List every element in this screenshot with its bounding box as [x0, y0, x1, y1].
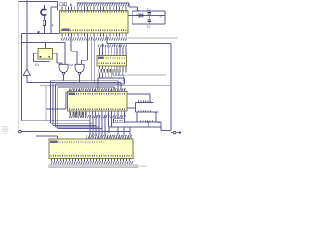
- label X1: [35, 63, 40, 67]
- wire grey net right of U3: [118, 74, 166, 76]
- wire main bus right segment: [107, 43, 171, 45]
- wire stair d4: [101, 115, 103, 135]
- wire stair h4: [58, 128, 102, 130]
- wire bus4 drop to U5: [114, 87, 116, 88]
- wire bus2 drop to U5: [120, 82, 122, 88]
- svg-text:X1: X1: [35, 63, 40, 67]
- wire X1 left pin: [33, 52, 38, 54]
- resistor R2 tiny above U1: [64, 3, 67, 6]
- bus labels text: [66, 86, 74, 88]
- wire row0 down: [149, 94, 151, 102]
- wire loop right vertical: [164, 11, 166, 24]
- wire collector1 down: [122, 75, 124, 82]
- wire left grey vertical: [18, 2, 20, 131]
- wire bottom bundle drop: [104, 115, 106, 135]
- wire stair d2: [95, 115, 97, 135]
- wire tick to U1 pin1: [51, 6, 58, 8]
- wire X1 right pin: [52, 52, 57, 54]
- junction box line: [147, 121, 149, 123]
- wire RC chain vertical low: [43, 26, 45, 33]
- wire loop bottom horizontal: [132, 23, 165, 25]
- NAND gate U4B: [75, 64, 84, 74]
- wire stair d0: [89, 115, 91, 135]
- wire U3 collector h2: [98, 77, 125, 79]
- wire buffer output vertical: [26, 0, 28, 69]
- junction row1: [149, 102, 151, 104]
- wire stair v3: [54, 84, 56, 127]
- wire U5 right out: [127, 93, 150, 95]
- wire box drop3: [129, 127, 131, 135]
- capacitor C1 (C-shaped polarized): [41, 9, 47, 15]
- wire right border vertical: [170, 44, 172, 131]
- IC U1 bottom pins: [62, 33, 126, 37]
- wire bus line4: [58, 86, 115, 88]
- IC U1 bottom pin labels text: [61, 37, 127, 40]
- wire X1 top pin: [45, 43, 47, 49]
- wire gate B output: [79, 75, 81, 83]
- capacitor C2 tiny above U1: [60, 3, 63, 6]
- IC U5 bottom labels text: [69, 115, 125, 118]
- svg-text:1u: 1u: [147, 7, 151, 11]
- wire gate B input2: [81, 60, 83, 64]
- wire U1 pin drop for gate B: [70, 36, 72, 51]
- oscillator X1 inner dots: [40, 56, 51, 58]
- wire stair d1: [92, 115, 94, 135]
- wire gate A input2 from bus: [64, 43, 66, 65]
- wire vertical right of R1: [50, 7, 52, 33]
- wire jog to gate B input1: [71, 50, 77, 52]
- label C4 value: [147, 7, 151, 11]
- IC U1 inside bottom pin numbers: [61, 29, 127, 31]
- wire bus line3: [55, 83, 124, 85]
- wire stair v2: [52, 82, 54, 125]
- wire top-left horizontal net: [19, 1, 58, 3]
- IC U5 bottom pins: [70, 111, 124, 115]
- wire stair v1: [50, 81, 52, 124]
- wire main bus left segment: [21, 42, 64, 44]
- wire long vertical v1: [90, 36, 92, 80]
- diode D1: [136, 13, 143, 17]
- wire U6 left feed: [36, 135, 58, 137]
- wire gate A output: [63, 75, 65, 81]
- IC U3 pins up to bus: [102, 44, 120, 48]
- IC U6 bottom pins: [52, 158, 130, 161]
- IC U3 inside top numbers: [99, 57, 126, 59]
- wire loop top horizontal: [132, 10, 165, 12]
- faint grey smudge bottom-left: [1, 126, 9, 134]
- wire bus1 drop to U5: [117, 81, 119, 89]
- wire U6 left feed drop: [57, 136, 59, 139]
- wire jog to gate B input2: [82, 59, 88, 61]
- wire box drop1: [117, 127, 119, 135]
- wire grey net right of U1: [128, 37, 178, 39]
- IC U6 top labels text: [88, 135, 131, 139]
- svg-text:4: 4: [52, 24, 54, 28]
- wire reset net horizontal: [21, 32, 59, 34]
- wire row1: [136, 101, 154, 103]
- ground arrow junction: [37, 31, 40, 34]
- row3 label text: [140, 120, 153, 122]
- wire U3 collector h1: [113, 74, 123, 76]
- U5 bottom drops to lower h: [108, 115, 111, 127]
- U5 bottom drops to label box: [115, 115, 125, 119]
- wire stair v4: [57, 87, 59, 129]
- wire bottom bundle h: [21, 130, 130, 132]
- wire X1 left cap down: [32, 53, 34, 61]
- wire collector2 down: [124, 78, 126, 84]
- IC U3 bottom pins: [99, 66, 126, 69]
- wire U1 pin1 feed vertical: [57, 2, 59, 11]
- wire stair h2: [53, 124, 96, 126]
- IC U5 name label: [69, 92, 76, 94]
- wire stair h0: [21, 120, 89, 122]
- oscillator X1 body: [38, 48, 52, 59]
- IC U6 bottom labels text: [51, 161, 133, 164]
- node left connector circle: [19, 130, 22, 133]
- node bottom-right open connector: [171, 131, 181, 134]
- wire to border bottom: [161, 129, 171, 131]
- IC U1 main processor body: [60, 10, 129, 32]
- wire U5 left pin loop horizontal: [46, 108, 66, 110]
- net label box text: [115, 120, 123, 122]
- wire left vertical net B: [20, 33, 22, 120]
- svg-text:6: 6: [160, 14, 162, 18]
- wire diode net horizontal: [128, 14, 165, 16]
- wire stair d3: [98, 115, 100, 135]
- IC U5 top labels text: [69, 88, 125, 91]
- IC U5 inside top numbers: [69, 93, 126, 95]
- IC U1 top pins: [62, 7, 126, 11]
- IC U5 top pins: [70, 88, 124, 91]
- IC U3 top labels text: [98, 45, 127, 48]
- wire row3: [124, 121, 161, 123]
- wire row2-row3 v: [155, 112, 157, 122]
- wire row2-row3 v left: [136, 112, 138, 122]
- wire box lower h: [109, 126, 161, 128]
- wire RC chain vertical mid: [43, 15, 45, 20]
- wire row3 down: [160, 122, 162, 130]
- resistor R1: [43, 20, 45, 25]
- wire stair h3: [55, 126, 99, 128]
- buffer U2 triangle: [23, 69, 30, 75]
- U3 drops to collector1: [113, 72, 122, 75]
- wire RC chain vertical top: [43, 5, 45, 9]
- IC U3 top pins: [99, 48, 126, 56]
- IC U1 inside top pin numbers: [61, 11, 127, 13]
- IC U5 inside bottom numbers: [69, 108, 126, 110]
- capacitor C4 upper: [147, 11, 151, 14]
- wire long vertical v2: [93, 36, 95, 82]
- wire row1-row2 v: [135, 102, 137, 112]
- wire top bus step v1: [128, 3, 130, 7]
- NAND gate U4A: [59, 64, 68, 74]
- wire top bus above U1: [76, 2, 129, 4]
- wire top bus step h1: [129, 6, 137, 8]
- wire stair grey vertical: [45, 86, 47, 121]
- wire loop left vertical: [131, 11, 133, 24]
- wire top bus step v2: [137, 7, 139, 11]
- wire stair h1: [51, 122, 93, 124]
- IC U6 inside top numbers: [51, 141, 105, 143]
- wire gate A input1: [61, 63, 63, 64]
- label C5 value: [147, 25, 151, 29]
- IC U1 part name label: [62, 28, 70, 31]
- wire X1 to gate A: [57, 62, 62, 64]
- junction row2: [155, 111, 157, 113]
- wire U5 right mid feed: [127, 107, 136, 109]
- wire U1 pin drop to right bus: [106, 36, 108, 43]
- IC U6 body EPROM: [49, 139, 133, 158]
- capacitor C5 lower: [147, 15, 151, 24]
- pin number 6 on loop: [160, 14, 162, 18]
- wire row2: [136, 111, 159, 113]
- grey bar window edge: [49, 165, 147, 168]
- wire bus line grey: [40, 85, 171, 87]
- wire bus line2: [27, 81, 121, 83]
- IC U6 top pins: [87, 135, 132, 139]
- wire box step v: [147, 122, 149, 127]
- label 1k: [52, 24, 54, 28]
- row2 label text: [138, 110, 151, 112]
- wire U1 pin drop right: [86, 36, 88, 60]
- resistor hatches under U5: [71, 112, 85, 118]
- junction top bus / loop: [137, 10, 139, 12]
- U3 drops to collector2: [99, 72, 111, 78]
- wire X1 under-body horizontal: [33, 60, 49, 62]
- wire U5 left pin loop vertical: [65, 91, 67, 109]
- IC U6 name label: [50, 141, 58, 144]
- IC U3 body: [97, 55, 127, 66]
- resistor pack hatches under U3: [99, 69, 127, 72]
- row1 label text: [138, 100, 149, 102]
- IC U6 inside bottom numbers: [51, 155, 132, 157]
- svg-text:1u: 1u: [147, 25, 151, 29]
- wire box drop2: [123, 127, 125, 135]
- wire bus line1: [51, 80, 118, 82]
- IC U3 inside bottom numbers: [99, 62, 126, 64]
- U1 top pin labels text: [77, 3, 129, 6]
- mark above U1 pin4: [70, 3, 71, 6]
- IC U5 body: [67, 91, 127, 111]
- IC U3 name label: [98, 56, 104, 58]
- wire box lower left v: [108, 127, 110, 133]
- junction row3: [158, 121, 160, 123]
- gate labels text: [70, 64, 75, 66]
- wire X1 right pin down: [56, 53, 58, 63]
- net label box: [114, 119, 125, 123]
- wire gate B input1: [76, 51, 78, 64]
- wire U3 left drop to U5: [97, 78, 99, 88]
- wire buffer input down: [26, 75, 28, 82]
